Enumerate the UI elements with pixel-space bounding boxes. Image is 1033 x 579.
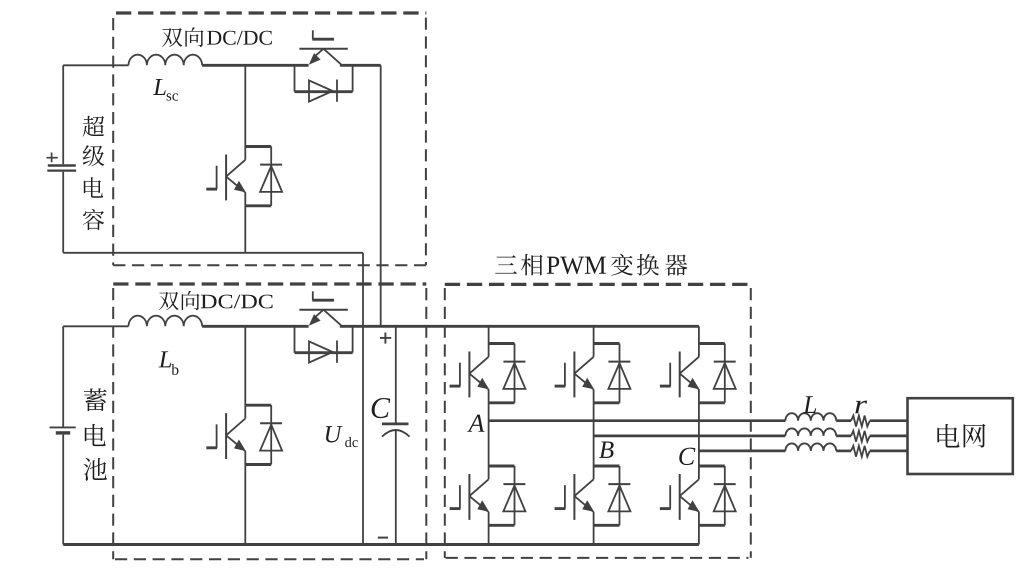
wire: top circuit negative rail	[63, 252, 363, 254]
wire: phase C output line	[699, 450, 786, 453]
wire: DC bus negative rail (thick)	[63, 543, 699, 546]
wire: positive link down to DC bus	[380, 65, 382, 326]
polarity mark + (supercapacitor)	[47, 157, 58, 159]
wire: Lsc to Q1 emitter (thick)	[202, 64, 309, 67]
wire: negative link down to DC bus	[362, 253, 364, 545]
wire: Lb to Q3 emitter (thick)	[202, 325, 309, 328]
wire: leg C midpoint	[698, 403, 700, 466]
box: three-phase PWM converter (dashed)	[445, 283, 751, 286]
wire: leg A midpoint	[488, 403, 490, 466]
polarity mark − (DC bus)	[378, 537, 388, 539]
wire: phase B L to r	[836, 435, 851, 438]
box: battery bidirectional DC/DC converter (dashed)	[113, 282, 426, 285]
wire: leg B midpoint	[593, 403, 595, 466]
box: supercapacitor bidirectional DC/DC converter (dashed)	[116, 11, 426, 14]
IGBT Q4 with antiparallel diode D4 (lower switch)	[206, 405, 282, 464]
inductor L (phase A)	[785, 413, 836, 421]
resistor r (phase B)	[851, 431, 870, 442]
label 蓄电池	[84, 388, 107, 411]
inductor L (phase B)	[785, 428, 836, 436]
label 电网	[937, 424, 959, 448]
label 超级电容	[83, 116, 105, 137]
wire: phase B output line	[594, 435, 786, 438]
label L (filter inductor)	[803, 396, 816, 413]
IGBT Q3 with antiparallel diode D3 (horizontal, top switch)	[295, 291, 353, 363]
wire: phase C to grid	[870, 450, 908, 453]
wire: Q4 emitter to negative bus	[244, 465, 246, 545]
label C (DC-link capacitor)	[372, 398, 391, 418]
wire: Q2 emitter to negative rail	[244, 206, 246, 253]
wire: battery negative lead	[62, 435, 64, 545]
wire: phase A output line	[489, 419, 786, 422]
capacitor C negative plate (curved)	[382, 430, 410, 437]
polarity mark + (DC bus)	[380, 337, 391, 339]
node A label	[467, 415, 484, 432]
wire: supercap to inductor Lsc	[63, 64, 128, 66]
inductor Lsc	[129, 55, 203, 66]
label Lb	[159, 351, 172, 367]
capacitor C positive plate	[382, 423, 409, 426]
node B label	[599, 442, 614, 458]
wire: leg B upper collector	[593, 326, 595, 343]
label Lsc	[153, 79, 166, 95]
IGBT Q1 with antiparallel diode D1 (horizontal, top switch)	[295, 30, 353, 102]
IGBT Q2 with antiparallel diode D2 (lower switch)	[206, 147, 282, 206]
IGBT Q9 with antiparallel diode D9 (phase C upper)	[660, 344, 736, 403]
wire: phase B to grid	[870, 435, 908, 438]
resistor r (phase C)	[851, 446, 870, 457]
wire: phase A to grid	[870, 419, 908, 422]
grid box 电网	[908, 398, 1013, 474]
wire: DC-link capacitor negative lead	[395, 430, 397, 544]
wire: phase A L to r	[836, 419, 851, 422]
wire: leg A lower emitter	[488, 525, 490, 544]
inductor Lb	[129, 316, 203, 327]
wire: leg A upper collector	[488, 326, 490, 343]
battery plates	[50, 426, 76, 428]
label Udc	[326, 426, 343, 442]
IGBT Q8 with antiparallel diode D8 (phase B lower)	[555, 466, 631, 525]
label 三相PWM变换器	[495, 255, 517, 273]
resistor r (phase A)	[851, 416, 870, 427]
wire: battery to inductor Lb	[63, 325, 128, 327]
wire: Q4 collector	[244, 326, 246, 405]
wire: battery positive lead	[62, 326, 64, 427]
wire: phase C L to r	[836, 450, 851, 453]
IGBT Q10 with antiparallel diode D10 (phase C lower)	[660, 466, 736, 525]
IGBT Q7 with antiparallel diode D7 (phase B upper)	[555, 344, 631, 403]
wire: DC bus positive rail (thick)	[340, 325, 699, 328]
wire: leg C upper collector	[698, 326, 700, 343]
label 双向DC/DC (bottom converter)	[159, 292, 179, 310]
wire: supercapacitor positive lead	[62, 65, 64, 164]
IGBT Q5 with antiparallel diode D5 (phase A upper)	[450, 344, 526, 403]
wire: Q2 collector	[244, 65, 246, 146]
node C label	[679, 448, 695, 465]
inductor L (phase C)	[785, 443, 836, 451]
wire: Q1 collector to positive link (thick)	[340, 64, 381, 67]
label r (line resistance)	[855, 401, 867, 414]
label 双向DC/DC (top converter)	[162, 28, 182, 47]
wire: leg B lower emitter	[593, 525, 595, 544]
IGBT Q6 with antiparallel diode D6 (phase A lower)	[450, 466, 526, 525]
wire: leg C lower emitter	[698, 525, 700, 544]
supercapacitor plates	[48, 164, 76, 167]
wire: supercapacitor negative lead	[62, 172, 64, 253]
wire: DC-link capacitor positive lead	[395, 326, 397, 423]
